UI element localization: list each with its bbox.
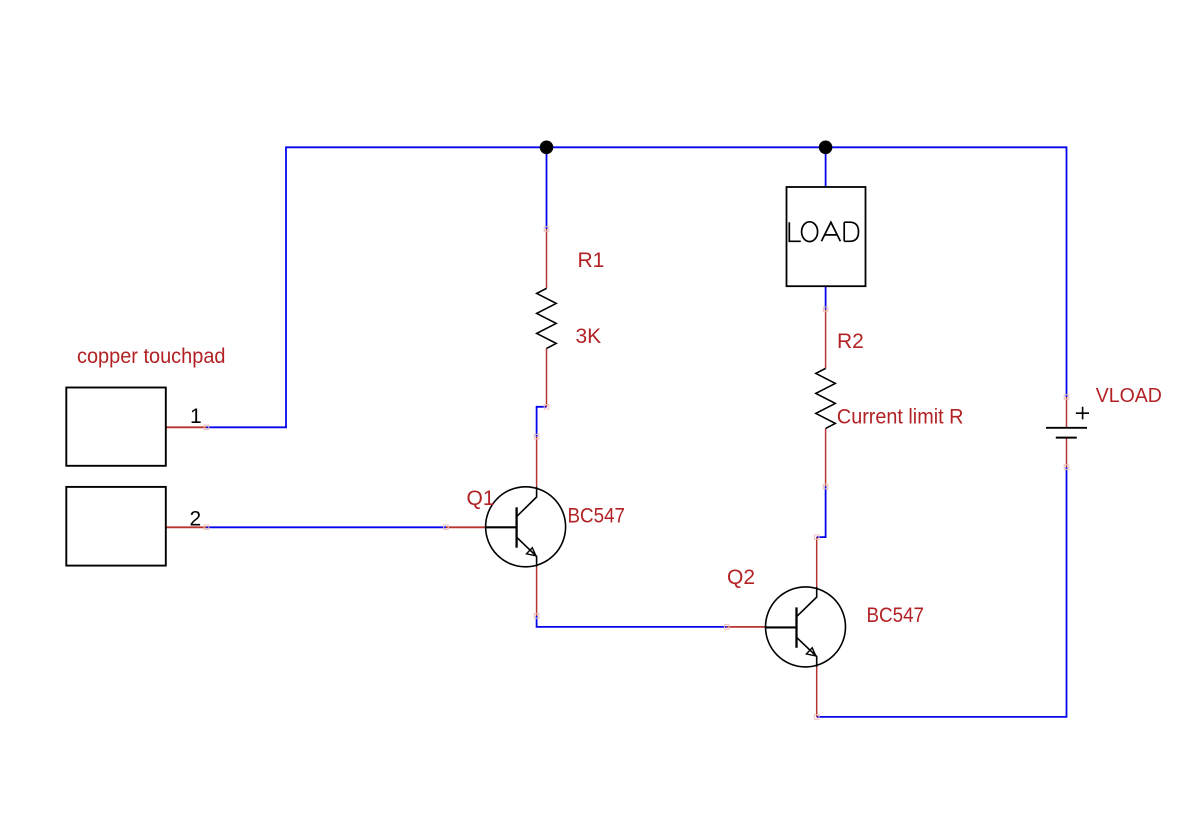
transistor Q2 body circle (766, 587, 846, 667)
svg-text:1: 1 (190, 405, 202, 428)
transistor Q1 base bar (515, 507, 517, 547)
transistor Q1 body circle (486, 487, 566, 567)
svg-text:R2: R2 (837, 330, 864, 353)
pin square Q1 collector (534, 434, 539, 439)
pin square battery bottom (1064, 465, 1069, 470)
pin stub R1 bottom (546, 348, 548, 406)
LOAD text (789, 222, 858, 242)
pin stub R2 top (825, 309, 827, 368)
svg-text:VLOAD: VLOAD (1096, 385, 1162, 407)
pin stub Q1 collector (536, 437, 538, 487)
wire rail to LOAD (825, 147, 827, 187)
junction node at LOAD top rail (819, 141, 833, 155)
pin square Q2 base (724, 625, 729, 630)
pin stub Q2 emitter (816, 667, 818, 717)
svg-text:Q2: Q2 (727, 566, 755, 589)
pin square R2 top (823, 307, 828, 312)
pin stub Q2 collector (816, 537, 818, 587)
wire R1 to Q1 collector (537, 407, 547, 437)
wire pad2 to Q1 base (207, 526, 447, 528)
transistor Q2 base bar (795, 607, 797, 647)
wire R2 to Q2 collector (817, 487, 826, 538)
pin square battery top (1064, 395, 1069, 400)
battery VLOAD plate minus (1056, 437, 1077, 439)
battery VLOAD plate plus (1046, 427, 1087, 429)
pin square Q2 emitter (814, 715, 819, 720)
pin stub R1 top (546, 229, 548, 288)
svg-text:3K: 3K (576, 325, 602, 348)
wire Q1 emitter to Q2 base (537, 616, 727, 627)
pin stub R2 bottom (825, 428, 827, 486)
resistor R1 zigzag (537, 288, 557, 348)
pin square Q1 emitter (534, 614, 539, 619)
pin stub battery plus (1066, 397, 1068, 428)
pin stub pad1 (166, 426, 207, 428)
pin stub battery minus (1066, 437, 1068, 467)
pin square Q1 base (444, 525, 449, 530)
pin stub Q2 base (727, 626, 766, 628)
wire pad1 to left riser (207, 426, 287, 428)
svg-text:Q1: Q1 (467, 487, 495, 510)
pin square pad2 (204, 525, 209, 530)
pin square pad1 (204, 425, 209, 430)
transistor Q2 emitter arrow (806, 648, 815, 656)
svg-text:R1: R1 (578, 249, 605, 272)
LOAD box (787, 187, 866, 286)
svg-text:BC547: BC547 (867, 604, 925, 627)
pin square R1 bottom (544, 405, 549, 410)
svg-text:2: 2 (190, 508, 202, 531)
svg-text:copper touchpad: copper touchpad (77, 345, 226, 368)
pin square R2 bottom (823, 484, 828, 489)
svg-text:BC547: BC547 (568, 505, 626, 528)
svg-text:Current limit R: Current limit R (837, 405, 964, 428)
touchpad 2 box (66, 487, 166, 566)
pin stub Q1 emitter (536, 567, 538, 616)
transistor Q2 base lead (766, 626, 797, 628)
pin square R1 top (544, 227, 549, 232)
wire Q2 emitter to battery minus (817, 467, 1067, 717)
transistor Q1 collector line (517, 487, 537, 516)
transistor Q1 emitter line (517, 538, 537, 567)
wire top rail (286, 147, 1067, 427)
battery plus sign (1076, 407, 1089, 420)
transistor Q2 collector line (797, 587, 817, 616)
resistor R2 zigzag (816, 368, 836, 428)
pin stub Q1 base (446, 526, 486, 528)
transistor Q2 emitter line (797, 638, 817, 667)
pin square Q2 collector (814, 535, 819, 540)
junction node at R1 top rail (540, 141, 554, 155)
transistor Q1 base lead (486, 526, 517, 528)
transistor Q1 emitter arrow (527, 548, 536, 556)
touchpad 1 box (66, 388, 166, 466)
pin stub pad2 (166, 526, 207, 528)
wire rail to R1 (546, 147, 548, 229)
wire LOAD to R2 (825, 286, 827, 309)
